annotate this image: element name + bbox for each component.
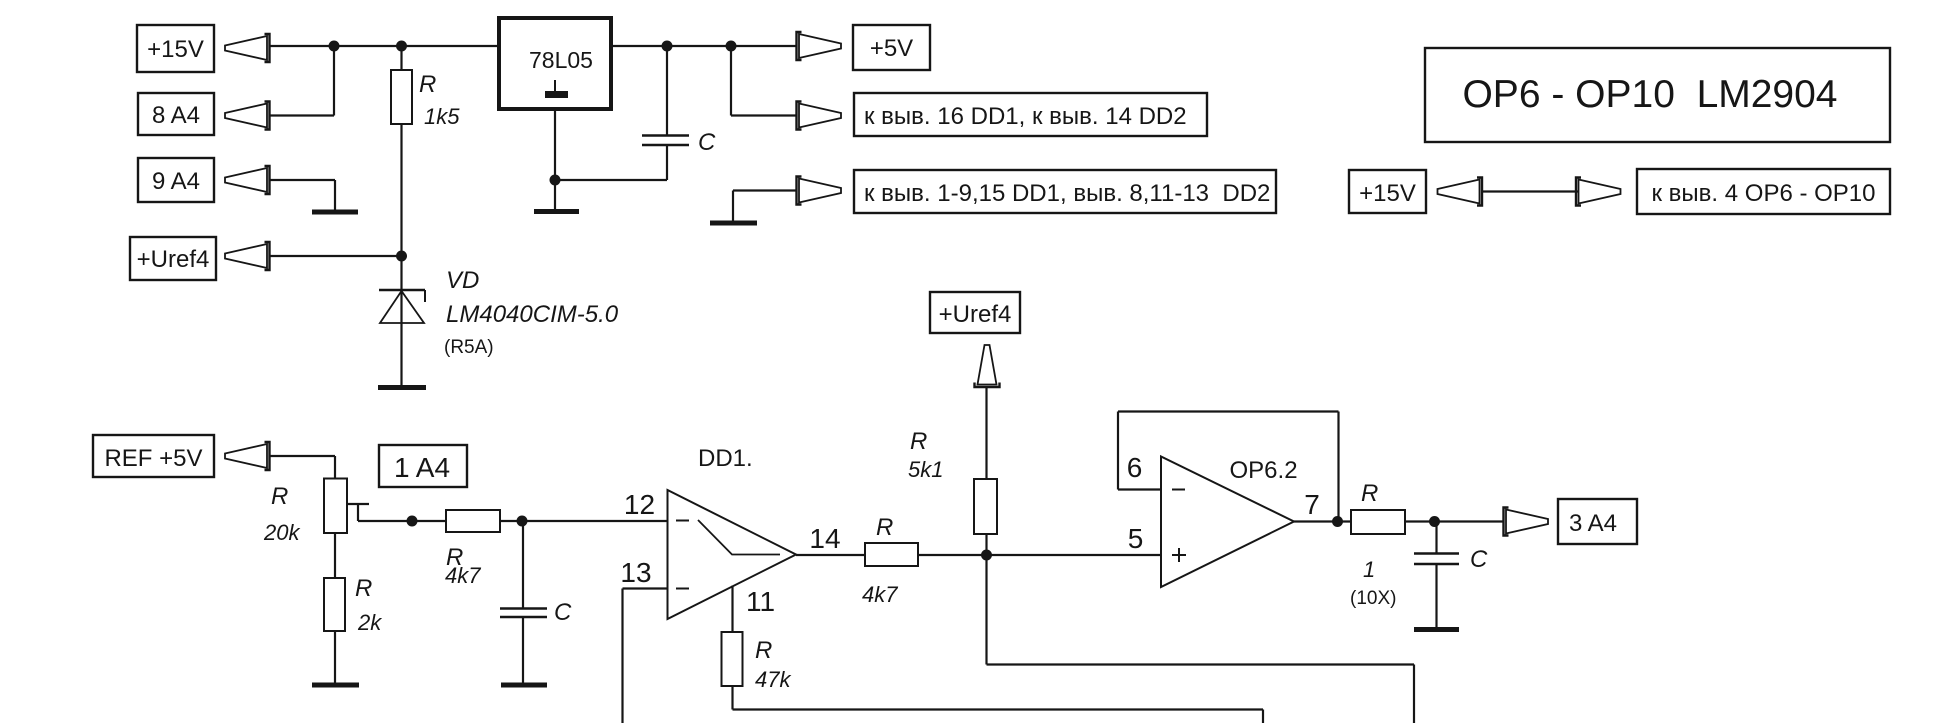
ground (DD supply) <box>710 221 757 226</box>
arrow left +Uref4 <box>225 242 270 270</box>
ground (C2) <box>501 683 547 688</box>
svg-text:14: 14 <box>809 523 840 554</box>
wire R5k1 bottom lead <box>985 534 987 555</box>
svg-text:2k: 2k <box>357 610 382 635</box>
node dot output C3 <box>1429 516 1440 527</box>
svg-text:5: 5 <box>1128 523 1144 554</box>
regulator U 78L05 box <box>499 18 611 109</box>
resistor R 5k1 <box>974 479 997 534</box>
svg-text:1 A4: 1 A4 <box>394 452 450 483</box>
node +5V box <box>853 25 930 70</box>
node dot rail-3 <box>662 41 673 52</box>
wire R4k7b to OP pin5 <box>918 554 1161 556</box>
wire pin13 vertical to edge <box>621 589 623 723</box>
wire pot wiper tap <box>347 503 369 505</box>
78L05 gnd pin symbol <box>554 80 556 92</box>
wire C2 top lead <box>522 521 524 608</box>
arrow right OP supply <box>1576 178 1621 206</box>
ground (C3) <box>1414 627 1459 632</box>
wire OP output pin7 <box>1294 520 1351 522</box>
wire 8 A4 vertical <box>333 46 335 116</box>
svg-text:20k: 20k <box>263 520 300 545</box>
wire DD1 pin13 <box>623 587 668 589</box>
svg-text:5k1: 5k1 <box>908 457 943 482</box>
op-amp U OP6.2 triangle <box>1161 457 1294 588</box>
ground (9 A4) <box>312 210 358 215</box>
svg-text:DD1.: DD1. <box>698 445 753 472</box>
OP6.2 minus dash <box>1172 489 1185 491</box>
node dot 78L05 gnd <box>550 175 561 186</box>
wire C3 top lead <box>1435 522 1437 554</box>
arrow right 3 A4 <box>1504 508 1549 536</box>
node +Uref4 box <box>130 237 216 280</box>
OP6.2 plus sign <box>1172 548 1186 562</box>
svg-text:+15V: +15V <box>147 36 204 63</box>
wire feedback right vertical <box>1337 412 1339 522</box>
resistor R 2k <box>324 578 345 631</box>
wire R4k7 to DD1 pin12 <box>500 520 668 522</box>
node 9 A4 box <box>138 158 214 202</box>
arrow left REF+5V <box>225 442 270 470</box>
wire node down <box>985 555 987 665</box>
arrow up +Uref4 <box>975 345 1000 387</box>
wire R1k5 bottom <box>400 124 402 256</box>
wire gnd to DD arrow <box>733 189 797 191</box>
DD1 minus dash pin12 <box>676 520 689 522</box>
node OP supply box <box>1637 169 1890 214</box>
arrow left +15V <box>225 34 270 62</box>
svg-text:к выв. 16 DD1, к выв. 14 DD2: к выв. 16 DD1, к выв. 14 DD2 <box>864 103 1187 130</box>
svg-text:R: R <box>755 637 772 664</box>
capacitor C (output filter) <box>1414 554 1459 565</box>
wire wiper drop <box>357 504 359 521</box>
svg-text:C: C <box>698 129 716 156</box>
svg-text:к выв. 1-9,15 DD1, выв. 8,11-1: к выв. 1-9,15 DD1, выв. 8,11-13 DD2 <box>864 180 1270 207</box>
svg-text:C: C <box>1470 546 1488 573</box>
wire gnd stub <box>732 191 734 222</box>
node REF +5V box <box>93 435 214 477</box>
arrow right DD supply <box>797 102 842 130</box>
svg-text:R: R <box>1361 480 1378 507</box>
wire VD anode <box>400 256 402 323</box>
wire 8 A4 branch <box>270 114 334 116</box>
wire R1k5 top <box>400 46 402 70</box>
wire R2k to ground <box>334 631 336 683</box>
wire DD1 output pin14 <box>796 554 865 556</box>
wire C1 top lead <box>666 46 668 135</box>
svg-text:78L05: 78L05 <box>529 47 593 73</box>
DD1 comparator mark <box>698 520 780 555</box>
wire R47k bottom <box>731 686 733 710</box>
resistor R 4k7 (second) <box>865 543 918 566</box>
wire 78L05 gnd pin <box>554 109 556 209</box>
svg-text:VD: VD <box>446 267 479 294</box>
svg-text:OP6.2: OP6.2 <box>1230 457 1298 484</box>
svg-text:R: R <box>910 428 927 455</box>
node DD supply box <box>854 93 1207 136</box>
resistor R 4k7 (first) <box>446 510 500 532</box>
arrow left 9 A4 <box>225 166 270 194</box>
resistor R 1 (10X) <box>1351 510 1405 534</box>
svg-text:12: 12 <box>624 489 655 520</box>
wire 9 A4 to ground <box>334 180 336 210</box>
svg-text:1k5: 1k5 <box>424 104 460 129</box>
svg-text:(10X): (10X) <box>1350 588 1396 609</box>
resistor R 47k <box>722 632 743 686</box>
svg-text:LM4040CIM-5.0: LM4040CIM-5.0 <box>446 301 619 328</box>
ground (78L05) <box>534 209 579 214</box>
wire feedback top <box>1118 410 1339 412</box>
node dot rail-4 <box>726 41 737 52</box>
node dot wiper <box>407 516 418 527</box>
node DD ground box <box>854 170 1276 213</box>
svg-text:4k7: 4k7 <box>862 582 898 607</box>
svg-text:+Uref4: +Uref4 <box>939 301 1012 328</box>
svg-text:4k7: 4k7 <box>445 563 481 588</box>
resistor R 1k5 <box>391 70 412 124</box>
node 3 A4 box <box>1558 499 1637 544</box>
svg-text:OP6 - OP10 LM2904: OP6 - OP10 LM2904 <box>1462 73 1837 116</box>
wire pot to R2k <box>334 533 336 578</box>
arrow right +5V <box>797 32 842 60</box>
node +15V box <box>137 25 214 72</box>
node dot rail-1 <box>329 41 340 52</box>
svg-text:+5V: +5V <box>870 35 913 62</box>
arrow left OP supply <box>1438 178 1483 206</box>
node 1 A4 box <box>379 445 467 487</box>
arrow left 8 A4 <box>225 102 270 130</box>
wire C2 bottom lead <box>522 618 524 684</box>
svg-text:R: R <box>271 483 288 510</box>
svg-text:C: C <box>554 599 572 626</box>
wire +15V to OP supply <box>1482 190 1581 192</box>
wire wiper to R4k7 <box>358 520 446 522</box>
op-amp DD1 triangle <box>668 490 797 619</box>
capacitor C (78L05 output) <box>642 136 689 146</box>
node dot rail-2 <box>396 41 407 52</box>
svg-text:47k: 47k <box>755 667 791 692</box>
wire +Uref4 branch <box>270 255 402 257</box>
wire VD to ground <box>400 323 402 386</box>
wire R47k bottom horizontal <box>733 708 1264 710</box>
capacitor C (input filter) <box>500 609 547 618</box>
wire gnd node to C <box>555 179 667 181</box>
wire REF+5V branch <box>270 455 335 457</box>
svg-text:+15V: +15V <box>1359 180 1416 207</box>
svg-text:к выв. 4 OP6 - OP10: к выв. 4 OP6 - OP10 <box>1652 180 1876 207</box>
wire R5k1 top lead <box>985 387 987 479</box>
node +Uref4 lower box <box>930 292 1020 333</box>
node +15V right box <box>1349 170 1426 213</box>
svg-text:R: R <box>355 575 372 602</box>
resistor R 20k potentiometer <box>324 479 347 534</box>
svg-text:R: R <box>419 71 436 98</box>
wire 9 A4 branch <box>270 179 335 181</box>
svg-text:11: 11 <box>746 586 775 617</box>
wire feedback left vertical <box>1117 412 1119 490</box>
svg-text:6: 6 <box>1127 452 1143 483</box>
wire OP pin6 <box>1118 488 1161 490</box>
wire +5V branch vertical <box>730 46 732 116</box>
ground (VD) <box>378 385 426 390</box>
wire 78L05 output rail <box>611 45 797 47</box>
wire C1 bottom lead <box>666 146 668 181</box>
node dot pin7 <box>1332 516 1343 527</box>
wire +15V main rail <box>270 45 499 47</box>
wire R47k net to edge <box>1262 710 1264 723</box>
svg-text:9 A4: 9 A4 <box>152 168 200 195</box>
svg-text:+Uref4: +Uref4 <box>137 246 210 273</box>
node 8 A4 box <box>138 93 214 135</box>
svg-text:R: R <box>876 514 893 541</box>
DD1 minus dash pin13 <box>676 588 689 590</box>
svg-text:7: 7 <box>1304 489 1320 520</box>
wire DD1 pin11 <box>731 586 733 633</box>
svg-text:3 A4: 3 A4 <box>1569 510 1617 537</box>
node dot pin5 <box>981 550 992 561</box>
svg-text:13: 13 <box>620 557 651 588</box>
wire pot top lead <box>334 456 336 479</box>
svg-text:8 A4: 8 A4 <box>152 102 200 129</box>
zener diode VD LM4040 <box>379 290 425 323</box>
wire node horizontal <box>987 663 1415 665</box>
node OP6-OP10 LM2904 box <box>1425 48 1890 142</box>
svg-text:1: 1 <box>1363 557 1375 582</box>
svg-text:(R5A): (R5A) <box>444 337 494 358</box>
svg-text:REF +5V: REF +5V <box>104 445 202 472</box>
wire R1 to arrow <box>1405 520 1504 522</box>
node dot Uref <box>396 251 407 262</box>
arrow right DD ground <box>797 177 842 205</box>
wire to DD supply arrow <box>731 114 797 116</box>
wire C3 bottom lead <box>1435 565 1437 628</box>
ground (R2k) <box>312 683 359 688</box>
node dot R4k7/C2 <box>517 516 528 527</box>
wire node to edge <box>1413 665 1415 723</box>
